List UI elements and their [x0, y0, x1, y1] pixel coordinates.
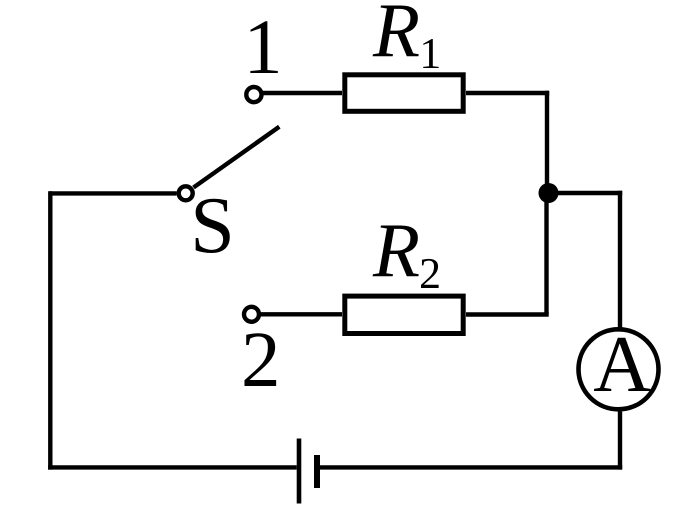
svg-text:S: S	[190, 182, 235, 270]
wire: R2 output up to junction node	[544, 193, 548, 315]
switch contact 2 terminal circle	[244, 307, 259, 322]
node junction dot	[539, 183, 559, 203]
wire: left rail vertical	[48, 191, 52, 469]
ammeter label A	[593, 321, 651, 409]
battery short plate (negative)	[314, 455, 320, 488]
label 2	[241, 317, 281, 404]
svg-text:R: R	[372, 0, 420, 73]
switch S pivot circle	[179, 186, 193, 200]
wire: bottom left to battery	[48, 465, 297, 469]
switch S arm blade	[194, 127, 280, 188]
label S	[190, 182, 235, 270]
svg-text:A: A	[593, 321, 651, 409]
svg-text:1: 1	[244, 3, 283, 90]
resistor label R1	[372, 0, 439, 73]
svg-text:R: R	[372, 207, 420, 293]
wire: right rail upper (node to ammeter top)	[618, 191, 622, 328]
wire: contact 1 to R1	[262, 91, 342, 95]
resistor R1 box	[345, 75, 463, 112]
switch contact 1 terminal circle	[246, 87, 261, 102]
svg-text:2: 2	[241, 317, 281, 404]
wire: battery to bottom right corner	[320, 465, 622, 469]
wire: R1 right side horizontal	[466, 91, 549, 95]
wire: switch pivot to left rail	[49, 191, 177, 195]
wire: R1 output down to junction node	[545, 91, 549, 193]
resistor R2 box	[345, 296, 463, 333]
battery long plate (positive)	[297, 439, 302, 504]
ammeter U1 circle	[579, 329, 659, 409]
wire: junction node to right rail	[547, 191, 623, 195]
label 1	[244, 3, 283, 90]
wire: R2 right side horizontal	[466, 312, 549, 316]
wire: right rail lower (ammeter to bottom wire)	[618, 412, 622, 470]
resistor label R2	[372, 207, 439, 293]
wire: contact 2 to R2	[259, 312, 342, 316]
